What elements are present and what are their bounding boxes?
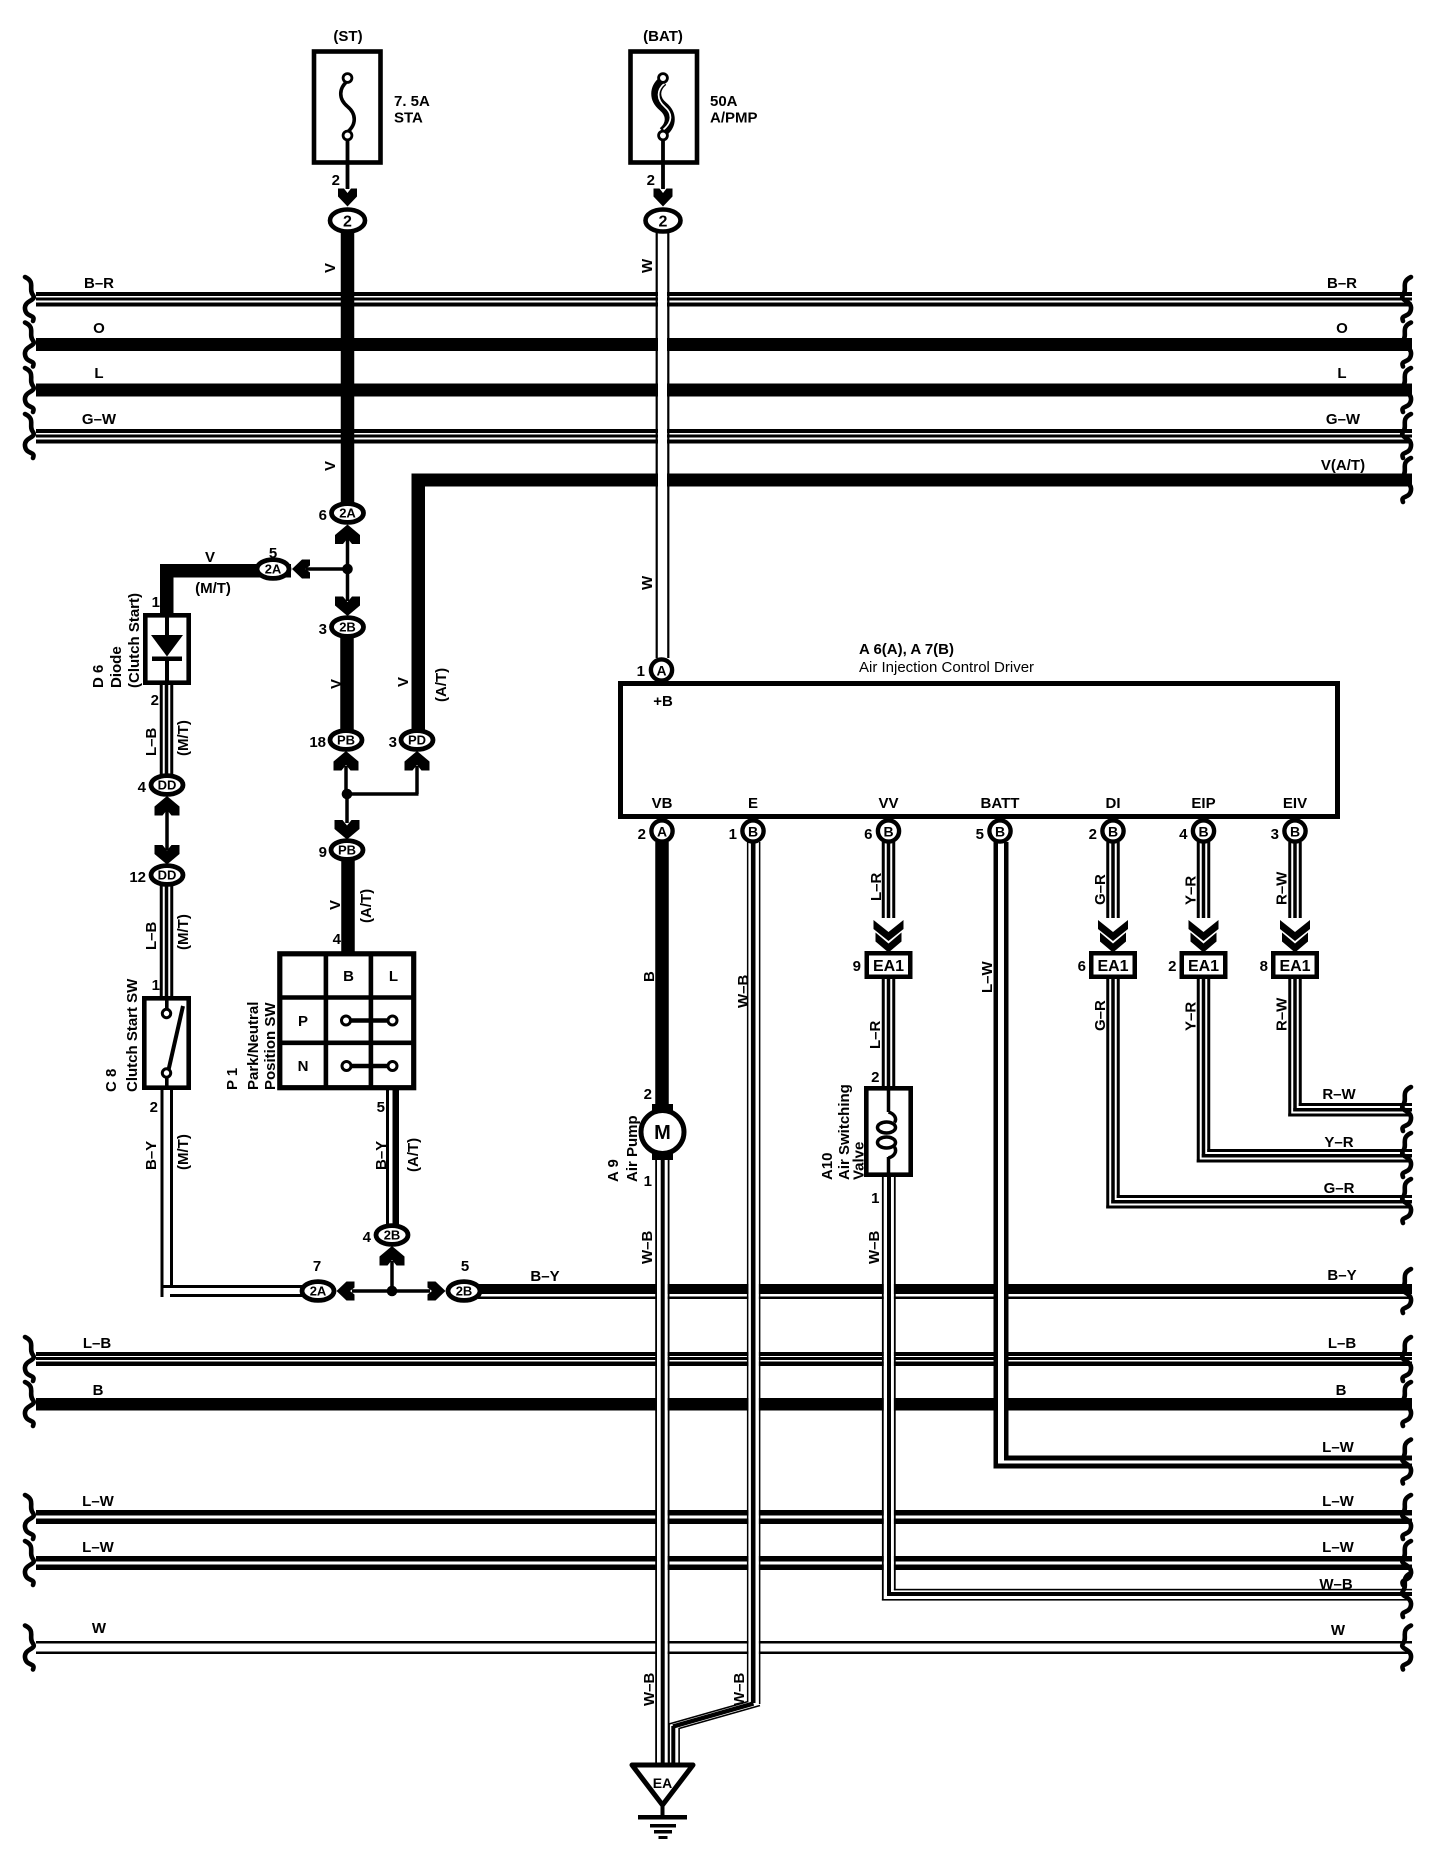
svg-text:1: 1 bbox=[637, 663, 645, 680]
svg-text:(A/T): (A/T) bbox=[358, 889, 375, 923]
svg-text:9: 9 bbox=[853, 958, 861, 975]
arrow left into connector 5 2A bbox=[292, 560, 310, 579]
svg-text:W: W bbox=[92, 1620, 107, 1637]
svg-text:V: V bbox=[322, 461, 339, 471]
wire R-W from EIV pin to EA1 bbox=[1288, 842, 1291, 952]
svg-text:(A/T): (A/T) bbox=[433, 668, 450, 702]
svg-text:50A: 50A bbox=[710, 93, 738, 110]
wire Y-R from EA1 to tail corner bbox=[1197, 978, 1200, 1163]
svg-text:2: 2 bbox=[332, 172, 340, 189]
svg-text:L–W: L–W bbox=[979, 960, 996, 993]
wire L-W from BATT pin to branch corner bbox=[994, 842, 999, 1469]
svg-text:L–W: L–W bbox=[1322, 1439, 1355, 1456]
arrow up into connector 3 PD bbox=[405, 751, 430, 771]
svg-text:A 9: A 9 bbox=[605, 1159, 622, 1182]
wire L rail bbox=[36, 365, 1412, 397]
svg-text:1: 1 bbox=[644, 1173, 652, 1190]
svg-text:G–R: G–R bbox=[1092, 874, 1109, 905]
svg-text:(ST): (ST) bbox=[333, 28, 362, 45]
svg-text:5: 5 bbox=[377, 1099, 385, 1116]
arrow down into connector 12 DD bbox=[155, 845, 180, 865]
wire W from fuse BAT down to driver pin A bbox=[656, 233, 658, 658]
svg-text:3: 3 bbox=[1271, 826, 1279, 843]
wire V (M/T) thick from connector 5 2A to diode corner bbox=[160, 564, 174, 578]
svg-text:EIV: EIV bbox=[1283, 795, 1307, 812]
wire stem from junction to connector 5 2A bbox=[306, 567, 348, 571]
svg-text:EA1: EA1 bbox=[873, 958, 904, 975]
pin 2 A (VB) of driver bbox=[638, 820, 673, 843]
svg-text:B: B bbox=[1108, 824, 1118, 840]
svg-text:5: 5 bbox=[976, 826, 984, 843]
svg-text:E: E bbox=[748, 795, 758, 812]
air injection control driver A6(A) A7(B) bbox=[621, 641, 1338, 817]
wire stem between connectors 4 DD and 12 DD bbox=[165, 810, 169, 850]
wire L-B from diode to connector 4 DD bbox=[160, 683, 163, 775]
junction node below 18 PB bbox=[342, 789, 353, 800]
wire stem from connector 18 PB down to junction bbox=[344, 766, 348, 796]
connector EA1 9 (VV) bbox=[853, 953, 911, 977]
wire B-R rail bbox=[36, 275, 1412, 307]
svg-text:L–B: L–B bbox=[143, 921, 160, 950]
arrow into connector 2 (ST) bbox=[338, 189, 357, 207]
svg-text:G–W: G–W bbox=[82, 411, 117, 428]
svg-text:L–B: L–B bbox=[143, 727, 160, 756]
svg-text:2B: 2B bbox=[456, 1284, 473, 1299]
svg-text:2A: 2A bbox=[310, 1284, 327, 1299]
svg-text:4: 4 bbox=[1179, 826, 1188, 843]
svg-text:EA1: EA1 bbox=[1188, 958, 1219, 975]
wire B-Y (A/T) from P/N switch pin 5 to connector 4 2B bbox=[386, 1089, 389, 1225]
connector 12 DD bbox=[129, 866, 183, 886]
svg-text:A: A bbox=[657, 824, 667, 840]
svg-text:B–Y: B–Y bbox=[143, 1141, 160, 1170]
wire stem from junction to connector 6 2A bbox=[346, 538, 350, 570]
svg-text:Y–R: Y–R bbox=[1183, 1002, 1200, 1031]
wire G-R tail from DI bbox=[1106, 1180, 1412, 1209]
wire stem from junction to connector 5 2B arrow bbox=[391, 1289, 430, 1293]
junction node on B-Y row bbox=[387, 1286, 398, 1297]
park/neutral position switch P1 bbox=[224, 931, 414, 1116]
svg-text:G–R: G–R bbox=[1324, 1180, 1355, 1197]
svg-text:9: 9 bbox=[319, 844, 327, 861]
connector 5 2B bbox=[448, 1258, 480, 1300]
diode D6 (Clutch Start) bbox=[90, 593, 189, 709]
svg-text:W–B: W–B bbox=[735, 975, 752, 1009]
svg-text:B: B bbox=[748, 824, 758, 840]
wire B rail bbox=[36, 1382, 1412, 1411]
wire W-B branch from A10 valve bbox=[882, 1576, 1412, 1601]
svg-text:B: B bbox=[93, 1382, 104, 1399]
svg-text:W–B: W–B bbox=[866, 1231, 883, 1265]
svg-text:V: V bbox=[322, 263, 339, 273]
fuse 50A A/PMP (BAT) bbox=[631, 28, 758, 189]
connector 6 2A bbox=[319, 504, 364, 524]
wire V(A/T) thick from connector 9 PB to P/N switch pin 4 bbox=[341, 859, 355, 953]
wire B-Y (M/T) from clutch switch down and right to connector 7 2A bbox=[161, 1089, 164, 1297]
arrow down into connector 9 PB bbox=[335, 820, 360, 840]
svg-text:B–Y: B–Y bbox=[373, 1141, 390, 1170]
svg-text:EA1: EA1 bbox=[1279, 958, 1310, 975]
wire stem from junction down to connector 3 2B bbox=[346, 568, 350, 601]
arrow into connector 2 (BAT) bbox=[654, 189, 673, 207]
svg-text:B–R: B–R bbox=[84, 275, 114, 292]
svg-text:B: B bbox=[641, 971, 658, 982]
svg-text:B: B bbox=[1290, 824, 1300, 840]
svg-text:PD: PD bbox=[408, 733, 426, 748]
svg-text:PB: PB bbox=[337, 733, 355, 748]
svg-text:B: B bbox=[883, 824, 893, 840]
svg-text:2: 2 bbox=[151, 692, 159, 709]
svg-text:W–B: W–B bbox=[641, 1673, 658, 1707]
svg-text:Valve: Valve bbox=[851, 1142, 868, 1180]
pin 2 B (DI) of driver bbox=[1089, 820, 1124, 843]
svg-text:D 6: D 6 bbox=[90, 665, 107, 688]
svg-text:(M/T): (M/T) bbox=[175, 914, 192, 950]
wire W rail bbox=[36, 1620, 1412, 1654]
svg-text:B: B bbox=[343, 968, 354, 985]
svg-text:A: A bbox=[656, 663, 666, 679]
wire stem from B-Y junction up to connector 4 2B bbox=[390, 1261, 394, 1291]
svg-text:Y–R: Y–R bbox=[1183, 876, 1200, 905]
svg-text:VB: VB bbox=[652, 795, 673, 812]
svg-text:2: 2 bbox=[150, 1099, 158, 1116]
svg-text:(M/T): (M/T) bbox=[175, 1134, 192, 1170]
wire O rail bbox=[36, 320, 1412, 351]
svg-text:M: M bbox=[654, 1122, 671, 1144]
svg-text:VV: VV bbox=[878, 795, 898, 812]
svg-text:Air Pump: Air Pump bbox=[624, 1115, 641, 1182]
svg-text:B–Y: B–Y bbox=[1327, 1267, 1356, 1284]
wire W-B E diagonal to ground bbox=[669, 1702, 748, 1725]
wire G-R from EA1 to tail corner bbox=[1106, 978, 1109, 1209]
svg-text:R–W: R–W bbox=[1274, 871, 1291, 905]
svg-text:5: 5 bbox=[461, 1258, 469, 1275]
pin 1 B (E) of driver bbox=[729, 820, 764, 843]
svg-text:7: 7 bbox=[313, 1258, 321, 1275]
svg-text:P 1: P 1 bbox=[224, 1068, 241, 1090]
connector EA1 2 (EIP) bbox=[1168, 953, 1225, 977]
wire W-B from valve A10 to branch corner bbox=[882, 1177, 884, 1601]
arrow double chevron into EA1 (DI) bbox=[1097, 918, 1129, 953]
connector 4 2B bbox=[363, 1226, 408, 1246]
svg-text:W–B: W–B bbox=[731, 1673, 748, 1707]
wire stem from junction down to connector 9 PB bbox=[345, 794, 349, 823]
svg-text:A/PMP: A/PMP bbox=[710, 110, 758, 127]
svg-text:L: L bbox=[389, 968, 398, 985]
air switching valve A10 bbox=[819, 1069, 911, 1207]
svg-text:L–W: L–W bbox=[1322, 1493, 1355, 1510]
svg-text:5: 5 bbox=[269, 545, 277, 562]
air pump A9 motor bbox=[605, 1086, 684, 1190]
wire Y-R tail from EIP bbox=[1197, 1134, 1412, 1163]
svg-text:L–B: L–B bbox=[1328, 1335, 1357, 1352]
wire W-B valve channel bbox=[884, 1177, 894, 1589]
svg-text:2B: 2B bbox=[384, 1228, 401, 1243]
svg-text:6: 6 bbox=[1078, 958, 1086, 975]
svg-text:2: 2 bbox=[647, 172, 655, 189]
svg-text:2: 2 bbox=[659, 214, 668, 231]
wire W-B from driver pin E down bbox=[747, 842, 749, 1702]
svg-text:G–R: G–R bbox=[1092, 1000, 1109, 1031]
svg-text:N: N bbox=[298, 1058, 309, 1075]
wire L-B rail bbox=[36, 1335, 1412, 1366]
arrow up into connector 4 2B bbox=[380, 1246, 405, 1266]
svg-text:(M/T): (M/T) bbox=[175, 720, 192, 756]
svg-text:P: P bbox=[298, 1013, 308, 1030]
wire L-B from connector 12 DD to clutch start switch bbox=[160, 885, 163, 997]
connector 5 2A bbox=[257, 545, 289, 578]
ground EA bbox=[632, 1765, 693, 1839]
svg-text:STA: STA bbox=[394, 110, 423, 127]
wire V thick from fuse ST to connector 2A bbox=[341, 233, 355, 503]
wire B-Y rail (right of connector 5 2B) bbox=[478, 1267, 1412, 1299]
svg-text:2: 2 bbox=[871, 1069, 879, 1086]
svg-text:Diode: Diode bbox=[108, 646, 125, 688]
svg-text:2: 2 bbox=[638, 826, 646, 843]
wire W from fuse BAT channel bbox=[658, 233, 667, 657]
svg-text:12: 12 bbox=[129, 869, 146, 886]
svg-text:V: V bbox=[205, 549, 215, 566]
wire stem from PD corner up to connector 3 PD bbox=[415, 766, 419, 794]
svg-text:1: 1 bbox=[729, 826, 737, 843]
svg-text:2: 2 bbox=[1089, 826, 1097, 843]
svg-text:(Clutch Start): (Clutch Start) bbox=[126, 593, 143, 688]
svg-text:DI: DI bbox=[1106, 795, 1121, 812]
svg-text:L: L bbox=[1337, 365, 1346, 382]
svg-text:DD: DD bbox=[158, 868, 177, 883]
svg-text:1: 1 bbox=[871, 1190, 879, 1207]
arrow right into connector 5 2B bbox=[428, 1282, 446, 1301]
svg-text:PB: PB bbox=[338, 843, 356, 858]
svg-text:Position SW: Position SW bbox=[262, 1002, 279, 1090]
svg-text:(M/T): (M/T) bbox=[195, 580, 231, 597]
svg-text:3: 3 bbox=[389, 734, 397, 751]
svg-text:EIP: EIP bbox=[1191, 795, 1215, 812]
svg-text:2B: 2B bbox=[339, 620, 356, 635]
arrow up into connector 4 DD bbox=[155, 796, 180, 816]
svg-text:B: B bbox=[1336, 1382, 1347, 1399]
svg-text:B–Y: B–Y bbox=[530, 1268, 559, 1285]
svg-text:Clutch Start SW: Clutch Start SW bbox=[124, 978, 141, 1092]
svg-text:4: 4 bbox=[363, 1229, 372, 1246]
connector 2 (BAT) bbox=[646, 210, 681, 232]
arrow left into connector 7 2A bbox=[337, 1282, 355, 1301]
svg-text:Y–R: Y–R bbox=[1324, 1134, 1353, 1151]
svg-text:1: 1 bbox=[152, 594, 160, 611]
arrow up into connector 6 2A bbox=[335, 525, 360, 545]
svg-text:R–W: R–W bbox=[1274, 997, 1291, 1031]
svg-text:R–W: R–W bbox=[1322, 1086, 1356, 1103]
svg-text:W–B: W–B bbox=[1319, 1576, 1353, 1593]
wire W-B air pump channel bbox=[657, 1160, 668, 1764]
wire horizontal at junction to PD corner bbox=[345, 792, 419, 796]
arrow up into connector 18 PB bbox=[334, 751, 359, 771]
svg-text:B–R: B–R bbox=[1327, 275, 1357, 292]
wire W-B driver E channel bbox=[748, 843, 759, 1702]
svg-text:L–B: L–B bbox=[83, 1335, 112, 1352]
svg-text:A 6(A), A 7(B): A 6(A), A 7(B) bbox=[859, 641, 954, 658]
svg-text:L–R: L–R bbox=[868, 872, 885, 901]
svg-text:7. 5A: 7. 5A bbox=[394, 93, 430, 110]
svg-text:L–W: L–W bbox=[82, 1539, 115, 1556]
svg-text:L: L bbox=[94, 365, 103, 382]
junction node on V wire bbox=[342, 564, 353, 575]
wire L-W rail 2 bbox=[36, 1539, 1412, 1570]
svg-text:(BAT): (BAT) bbox=[643, 28, 683, 45]
wire L-R from VV pin to EA1 bbox=[882, 842, 885, 952]
svg-text:4: 4 bbox=[138, 779, 147, 796]
svg-text:L–W: L–W bbox=[1322, 1539, 1355, 1556]
svg-text:EA: EA bbox=[653, 1775, 672, 1791]
wire L-W branch from BATT bbox=[994, 1439, 1413, 1469]
connector 3 2B bbox=[319, 618, 364, 638]
svg-text:W–B: W–B bbox=[639, 1231, 656, 1265]
arrow double chevron into EA1 (VV) bbox=[873, 918, 905, 953]
connector EA1 6 (DI) bbox=[1078, 953, 1135, 977]
wire R-W tail from EIV bbox=[1288, 1086, 1412, 1117]
pin 3 B (EIV) of driver bbox=[1271, 820, 1306, 843]
svg-text:G–W: G–W bbox=[1326, 411, 1361, 428]
svg-text:8: 8 bbox=[1260, 958, 1268, 975]
svg-text:1: 1 bbox=[152, 977, 160, 994]
svg-text:18: 18 bbox=[309, 734, 326, 751]
connector 4 DD bbox=[138, 776, 183, 796]
wire B thick from VB pin to air pump bbox=[655, 842, 669, 1105]
svg-text:BATT: BATT bbox=[981, 795, 1020, 812]
svg-text:(A/T): (A/T) bbox=[405, 1138, 422, 1172]
svg-text:+B: +B bbox=[653, 693, 673, 710]
wire V(A/T) rail bbox=[412, 457, 1413, 487]
svg-text:W: W bbox=[639, 258, 656, 273]
svg-text:Air Injection Control Driver: Air Injection Control Driver bbox=[859, 659, 1034, 676]
svg-text:W: W bbox=[1331, 1622, 1346, 1639]
wire L-R from EA1 to valve A10 bbox=[882, 978, 885, 1088]
svg-text:V: V bbox=[328, 679, 345, 689]
wire W-B from air pump to ground EA bbox=[655, 1160, 657, 1765]
wire V thick from connector 2B to connector 18 PB bbox=[340, 636, 354, 730]
pin 5 B (BATT) of driver bbox=[976, 820, 1011, 843]
wire G-W rail bbox=[36, 411, 1412, 444]
svg-text:2A: 2A bbox=[265, 562, 282, 577]
pin 6 B (VV) of driver bbox=[864, 820, 899, 843]
pin 4 B (EIP) of driver bbox=[1179, 820, 1214, 843]
connector 9 PB bbox=[319, 841, 363, 861]
arrow down into connector 3 2B bbox=[335, 597, 360, 617]
svg-text:W: W bbox=[639, 575, 656, 590]
connector 18 PB bbox=[309, 731, 362, 751]
svg-text:6: 6 bbox=[864, 826, 872, 843]
connector EA1 8 (EIV) bbox=[1260, 953, 1317, 977]
wire L-W BATT channel bbox=[998, 843, 1004, 1463]
fuse 7.5A STA (ST) bbox=[314, 28, 430, 189]
svg-text:4: 4 bbox=[333, 931, 342, 948]
connector 7 2A bbox=[302, 1258, 334, 1300]
svg-text:A10: A10 bbox=[819, 1152, 836, 1180]
svg-text:3: 3 bbox=[319, 621, 327, 638]
svg-text:V: V bbox=[395, 677, 412, 687]
svg-text:O: O bbox=[1336, 320, 1348, 337]
svg-text:EA1: EA1 bbox=[1097, 958, 1128, 975]
svg-text:DD: DD bbox=[158, 778, 177, 793]
svg-text:6: 6 bbox=[319, 507, 327, 524]
svg-text:L–W: L–W bbox=[82, 1493, 115, 1510]
rail end braces left bbox=[25, 277, 34, 1670]
svg-text:2: 2 bbox=[1168, 958, 1176, 975]
rail end braces right bbox=[1402, 277, 1411, 1670]
svg-text:V(A/T): V(A/T) bbox=[1321, 457, 1365, 474]
wire L-W rail 1 bbox=[36, 1493, 1412, 1524]
wire stem from connector 7 2A arrow to junction bbox=[352, 1289, 392, 1293]
svg-text:B: B bbox=[1198, 824, 1208, 840]
svg-text:2A: 2A bbox=[339, 506, 356, 521]
svg-text:C 8: C 8 bbox=[103, 1069, 120, 1092]
svg-text:L–R: L–R bbox=[867, 1020, 884, 1049]
connector 3 PD bbox=[389, 731, 433, 751]
svg-text:2: 2 bbox=[644, 1086, 652, 1103]
wire V(A/T) thick from rail corner down to connector 3 PD bbox=[412, 474, 426, 731]
svg-text:Park/Neutral: Park/Neutral bbox=[245, 1002, 262, 1090]
pin 1 A (+B) of driver bbox=[637, 659, 672, 680]
svg-text:2: 2 bbox=[343, 214, 352, 231]
svg-text:V: V bbox=[327, 900, 344, 910]
arrow double chevron into EA1 (EIP) bbox=[1188, 918, 1220, 953]
svg-text:B: B bbox=[995, 824, 1005, 840]
arrow double chevron into EA1 (EIV) bbox=[1279, 918, 1311, 953]
wire Y-R from EIP pin to EA1 bbox=[1197, 842, 1200, 952]
wire R-W from EA1 to tail corner bbox=[1288, 978, 1291, 1117]
svg-text:O: O bbox=[93, 320, 105, 337]
clutch start switch C8 bbox=[103, 977, 189, 1116]
wire G-R from DI pin to EA1 bbox=[1106, 842, 1109, 952]
connector 2 (ST) bbox=[330, 210, 365, 232]
